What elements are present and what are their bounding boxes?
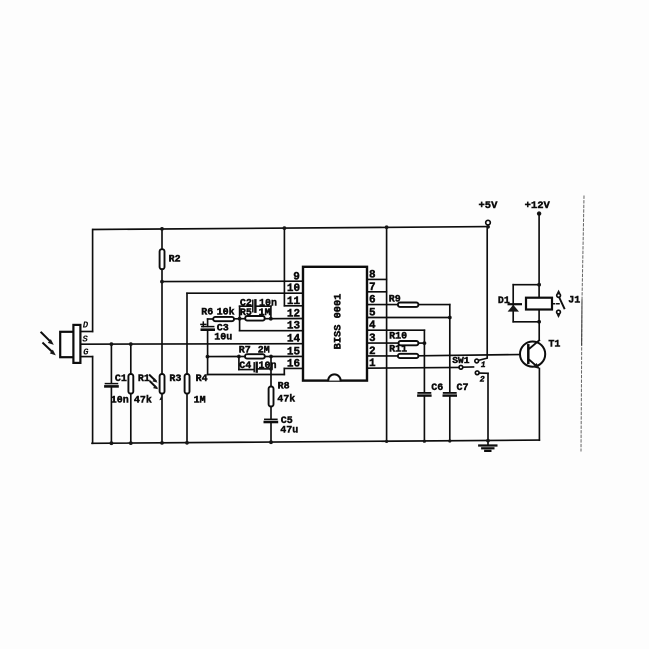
svg-text:D: D (83, 320, 89, 330)
node relay top junction (537, 283, 541, 287)
pin number 14 (287, 334, 301, 346)
relay linkage dashed (552, 303, 560, 305)
node R5/R6 junction (238, 317, 242, 321)
node top rail pin11 junction (283, 226, 287, 230)
svg-text:R1: R1 (138, 374, 150, 385)
label contact 2 (480, 375, 485, 384)
resistor R11 (367, 354, 527, 358)
label +12V (525, 200, 551, 212)
svg-text:9: 9 (293, 271, 300, 283)
wire pin 15 line (271, 355, 303, 357)
+5V supply terminal (486, 220, 491, 357)
PIR sensor pin label D (83, 320, 89, 330)
label R7 2M (239, 346, 270, 357)
node relay bottom junction (537, 320, 541, 324)
pin number 8 (369, 269, 376, 281)
svg-text:10: 10 (287, 283, 300, 295)
ground symbol (479, 441, 496, 451)
capacitor C5 (265, 419, 277, 442)
wire relay to T1 collector (538, 310, 540, 341)
label C6 (431, 383, 443, 394)
svg-text:R6: R6 (201, 308, 213, 319)
wire bottom ground rail (92, 440, 539, 443)
pin number 6 (369, 295, 376, 307)
svg-text:D1: D1 (498, 296, 510, 307)
incident IR arrows at sensor (41, 333, 52, 353)
wire pin 5 line (367, 317, 450, 319)
label R8 47k (277, 382, 295, 406)
resistor R10 (367, 341, 424, 345)
node S line R1 junction (129, 342, 133, 346)
pin number 7 (369, 282, 376, 294)
svg-text:11: 11 (287, 296, 301, 308)
pin number 12 (287, 309, 300, 321)
IC U1 BISS0001 body (303, 267, 367, 381)
label C1 (111, 374, 129, 406)
node C4 right junction (269, 367, 273, 371)
label C4 10n (239, 361, 276, 372)
label T1 (548, 340, 560, 351)
node ground rail C6 junction (423, 440, 426, 443)
svg-text:14: 14 (287, 334, 301, 346)
label +5V (479, 200, 499, 212)
label C7 (457, 383, 469, 394)
node R5 right junction (269, 317, 273, 321)
node ground rail R1 junction (129, 441, 133, 445)
node +5V rail junction (486, 225, 490, 229)
capacitor C7 (444, 318, 456, 442)
svg-text:10n: 10n (259, 361, 277, 372)
resistor R3 (LDR) (160, 282, 165, 443)
svg-text:+5V: +5V (479, 200, 499, 212)
+12V supply terminal (537, 211, 541, 215)
svg-text:C2: C2 (240, 299, 252, 310)
diode D1 loop (513, 285, 539, 322)
node top rail R2 junction (160, 227, 164, 231)
wire R7 left line (208, 356, 239, 358)
capacitor C3 (polarized) (202, 319, 214, 375)
C3 plus sign (201, 322, 206, 327)
svg-text:R3: R3 (169, 374, 181, 385)
pin number 1 (369, 358, 376, 370)
svg-text:R4: R4 (196, 374, 208, 385)
pin number 2 (369, 346, 376, 358)
svg-text:SW1: SW1 (452, 355, 470, 366)
pin number 4 (369, 320, 376, 332)
svg-text:47u: 47u (280, 425, 298, 436)
capacitor C6 (418, 343, 430, 441)
pin number 10 (287, 283, 300, 295)
label SW1 (452, 355, 470, 366)
wire pin 11 line from +5V rail (284, 228, 303, 306)
svg-text:2M: 2M (258, 346, 270, 357)
resistor R9 (367, 303, 450, 318)
label R4 (194, 374, 208, 406)
PIR sensor pin label S (82, 335, 88, 345)
pin number 13 (287, 321, 301, 333)
svg-text:R10: R10 (389, 332, 407, 343)
wire +12V down to relay (538, 214, 540, 298)
svg-text:10n: 10n (111, 395, 129, 406)
wire T1 emitter to ground rail (538, 369, 540, 441)
label J1 (568, 296, 580, 307)
svg-text:1M: 1M (194, 395, 206, 406)
svg-text:G: G (83, 348, 89, 358)
relay contact stubs (557, 290, 561, 318)
label R10 (389, 332, 407, 343)
wire pin 10 line (187, 292, 303, 294)
label D1 (498, 296, 510, 307)
wire pin 4 line (367, 330, 424, 343)
switch SW1 contact 1 (475, 358, 487, 363)
resistor R5 (240, 316, 271, 321)
PIR sensor B1 body (60, 325, 80, 363)
node ground rail R4 junction (185, 441, 189, 445)
wire source line S to pin 14 (80, 343, 303, 346)
svg-text:R2: R2 (169, 254, 181, 265)
relay K1 coil (526, 298, 552, 310)
label R5 1M (240, 308, 271, 319)
svg-text:47k: 47k (277, 394, 295, 406)
wire top +5V rail (93, 227, 488, 230)
svg-text:C1: C1 (115, 374, 127, 385)
svg-text:T1: T1 (548, 340, 560, 351)
svg-text:C4: C4 (239, 361, 251, 372)
capacitor C4 parallel loop (239, 357, 271, 375)
wire pin 1 to SW1 pole (367, 366, 459, 369)
PIR sensor pin label G (83, 348, 89, 358)
capacitor C2 parallel loop (240, 300, 271, 318)
label contact 1 (481, 362, 486, 370)
svg-text:C6: C6 (431, 383, 443, 394)
svg-text:C7: C7 (457, 383, 469, 394)
node ground rail C5 junction (269, 440, 273, 444)
label C2 10n (240, 299, 277, 310)
LDR arrows at R3 (150, 375, 156, 387)
resistor R8 (269, 375, 274, 420)
diode D1 (509, 303, 521, 305)
node ground rail junction (486, 439, 490, 443)
svg-text:15: 15 (287, 347, 301, 359)
svg-text:47k: 47k (134, 394, 152, 406)
pin number 16 (287, 358, 300, 370)
node pin5/R9/C7 junction (448, 316, 452, 320)
pin number 5 (369, 308, 376, 320)
label C5 47u (280, 416, 298, 436)
page edge scan artifact (581, 196, 584, 451)
svg-text:S: S (82, 335, 88, 345)
wire left vertical sensor D to rail (80, 230, 92, 332)
wire pin 12 line (271, 318, 303, 320)
node R7 left junction (237, 355, 241, 359)
label R9 (389, 294, 401, 305)
resistor R7 (239, 354, 271, 358)
node ground rail R3 junction (160, 441, 164, 445)
resistor R1 (128, 344, 133, 443)
node pin9 R2/R3 junction (160, 280, 164, 284)
relay contact J1 (557, 294, 565, 315)
resistor R2 (160, 229, 165, 282)
svg-text:+12V: +12V (525, 200, 551, 212)
wire pin 9 line (162, 280, 303, 282)
T1 emitter arrowhead (533, 363, 540, 369)
label R6 10k (201, 307, 234, 319)
svg-text:10n: 10n (259, 299, 277, 310)
wire pin 8 to +5V vertical (367, 278, 387, 280)
node R10/pin4/C6 junction (423, 341, 427, 345)
pin number 9 (293, 271, 300, 283)
wire left vertical sensor G to ground rail (80, 357, 92, 444)
node S line C1 junction (110, 342, 114, 346)
svg-text:10k: 10k (217, 307, 235, 319)
capacitor C1 (105, 344, 117, 443)
node ground rail C1 junction (110, 441, 114, 445)
svg-text:R9: R9 (389, 294, 401, 305)
svg-text:R11: R11 (389, 344, 407, 355)
svg-text:1: 1 (481, 362, 486, 370)
svg-text:16: 16 (287, 358, 300, 370)
wire pin 13 line (240, 319, 303, 331)
svg-text:J1: J1 (568, 296, 580, 307)
label R2 (169, 254, 181, 265)
pin number 15 (287, 347, 301, 359)
node ground rail Vss junction (385, 440, 388, 443)
wire +5V vertical column (386, 227, 388, 441)
label R3 (169, 374, 181, 385)
wire pin 7 stub (367, 291, 387, 293)
resistor R4 (185, 293, 190, 443)
resistor R6 (208, 317, 240, 321)
node C3/R7 tee (206, 355, 210, 359)
svg-text:12: 12 (287, 309, 300, 321)
svg-text:BISS 0001: BISS 0001 (333, 294, 345, 350)
wire pin 16 line (208, 368, 303, 374)
transistor T1 (520, 340, 545, 367)
node ground rail C7 junction (448, 439, 451, 442)
switch SW1 pole (459, 365, 474, 369)
pin number 3 (369, 333, 376, 345)
svg-text:10u: 10u (214, 332, 232, 343)
label R11 (389, 344, 407, 355)
label R1 (134, 374, 152, 406)
svg-text:R8: R8 (278, 382, 290, 393)
svg-text:13: 13 (287, 321, 301, 333)
node top rail VDD junction (385, 225, 389, 229)
node R7 right junction (269, 355, 273, 359)
switch SW1 contact 2 (475, 371, 488, 441)
svg-text:R7: R7 (239, 346, 251, 357)
pin number 11 (287, 296, 301, 308)
label C3 10u (214, 323, 232, 343)
IC U1 text BISS 0001 (333, 294, 345, 350)
svg-text:2: 2 (480, 375, 485, 384)
